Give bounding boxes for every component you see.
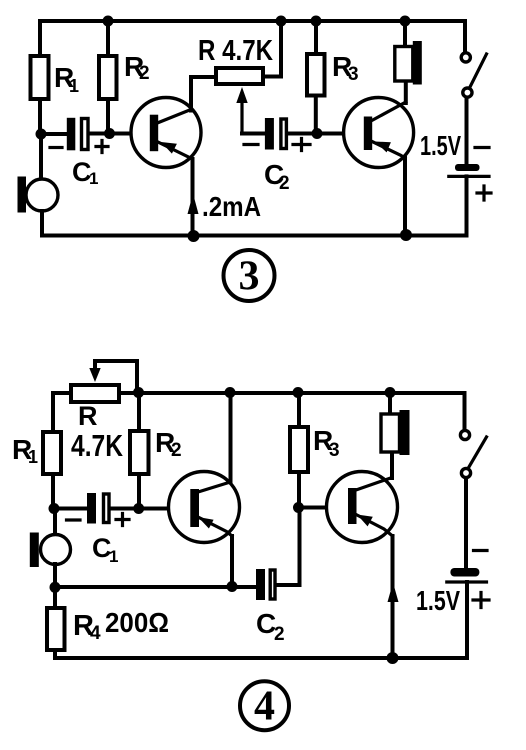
wire R2 bottom lead fig3	[106, 99, 110, 134]
node R2/C1/base junction fig3	[104, 128, 115, 139]
transistor Q1 fig4	[169, 472, 240, 543]
svg-text:1: 1	[109, 547, 118, 566]
current arrow on Q2 emitter fig4	[388, 583, 399, 603]
wire R3 top lead fig4	[297, 393, 301, 427]
wire R1 bottom lead fig3	[38, 99, 42, 134]
label C1 minus fig4	[67, 518, 81, 521]
svg-text:.2mA: .2mA	[202, 191, 261, 222]
Q1 emitter arrow fig3	[161, 142, 177, 154]
svg-text:4.7K: 4.7K	[71, 428, 123, 463]
Q1 emitter arrow fig4	[198, 517, 214, 529]
figure number 4	[240, 681, 289, 730]
wire Q1 collector diagonal fig4	[198, 482, 231, 492]
node R3 rail junction fig4	[293, 387, 304, 398]
wire C1 right lead to Q1 base fig3	[89, 132, 151, 136]
wire Q2 collector diagonal fig4	[356, 478, 392, 491]
node earphone top rail junction fig3	[400, 16, 411, 27]
wire Q2 emitter to bottom rail fig4	[391, 536, 395, 658]
wire R3 bottom lead fig3	[314, 96, 318, 134]
wire switch to battery fig3	[465, 98, 469, 164]
wire Q2 emitter diagonal fig3	[371, 141, 405, 158]
microphone M fig4	[41, 535, 71, 565]
wire Q1 emitter down to bus fig4	[230, 536, 234, 586]
svg-text:2: 2	[279, 173, 290, 194]
wire Q1 emitter diagonal fig4	[199, 518, 232, 537]
label C2 minus fig3	[244, 143, 258, 146]
label battery minus fig3	[475, 146, 489, 149]
node Q1 collector rail junction fig4	[225, 387, 236, 398]
current arrow .2mA fig3	[188, 194, 199, 215]
wire C2 right lead riser fig4	[277, 508, 300, 586]
svg-text:1.5V: 1.5V	[420, 130, 461, 161]
wire pot left lead fig4	[53, 393, 71, 432]
svg-text:R 4.7K: R 4.7K	[198, 35, 273, 67]
capacitor C2 fig3	[265, 118, 274, 150]
svg-text:4: 4	[90, 623, 101, 644]
potentiometer R 4.7K fig3	[216, 68, 263, 84]
potentiometer R 4.7K fig4	[71, 385, 119, 402]
resistor R1 fig4	[43, 432, 61, 474]
Q2 emitter arrow fig3	[375, 142, 391, 153]
earphone BF fig3	[395, 47, 413, 82]
wire R4 top lead fig4	[53, 587, 57, 608]
wire C1 right lead to Q1 base fig4	[110, 507, 191, 511]
label battery plus fig3	[477, 186, 491, 200]
wire top rail fig4	[119, 391, 465, 395]
wire battery to bottom rail fig3	[465, 176, 469, 235]
capacitor C2 fig4	[256, 569, 265, 600]
wire Q2 emitter diagonal fig4	[357, 515, 393, 536]
wire top rail to switch fig3	[463, 21, 467, 52]
capacitor C1 fig4	[87, 493, 96, 524]
node R3/C2/base junction fig4	[293, 502, 304, 513]
capacitor C1 fig3	[67, 118, 76, 151]
node R1/C1/mic junction fig4	[49, 503, 60, 514]
Q2 emitter arrow fig4	[357, 515, 373, 527]
svg-text:R: R	[78, 401, 98, 431]
label C1 plus fig3	[96, 141, 108, 153]
wire top supply rail fig3	[40, 19, 465, 23]
battery B 1.5V fig3	[455, 164, 480, 171]
wire C1 left lead fig4	[54, 507, 87, 511]
earphone BF fig4	[381, 414, 400, 452]
wire switch to battery fig4	[464, 478, 468, 567]
wire Q2 emitter to bottom rail fig3	[403, 158, 407, 236]
wire pot right lead to top rail fig3	[263, 21, 281, 77]
microphone M fig3	[26, 179, 58, 211]
svg-text:1: 1	[28, 447, 38, 467]
wire rail to switch fig4	[463, 393, 467, 429]
label battery plus fig4	[473, 593, 489, 608]
switch S fig4	[460, 430, 469, 439]
wire mic top lead fig3	[39, 134, 43, 179]
wire Q1 collector riser to pot fig3	[191, 77, 216, 111]
label battery minus fig4	[474, 549, 488, 552]
transistor Q1 fig3	[131, 98, 201, 168]
wire C1 left lead fig3	[41, 132, 67, 136]
wire R2 bottom lead fig4	[137, 474, 141, 509]
wire Q2 collector riser to earphone fig3	[404, 81, 408, 103]
wire Q1 collector diagonal fig3	[156, 110, 191, 124]
node pot/R2 rail junction fig4	[133, 387, 144, 398]
node R1/C1/mic junction fig3	[36, 129, 47, 140]
wire mic bottom lead to bottom rail fig3	[40, 211, 44, 236]
wire bottom rail fig3	[42, 234, 465, 238]
wire R1 top lead fig3	[38, 21, 42, 56]
wire R2 top lead fig4	[137, 393, 141, 432]
switch S fig3	[461, 53, 470, 62]
resistor R1 fig3	[31, 56, 49, 99]
node earphone rail junction fig4	[385, 387, 396, 398]
svg-text:3: 3	[329, 440, 340, 461]
svg-text:1: 1	[89, 169, 98, 188]
resistor R4 fig4	[47, 608, 65, 650]
transistor Q2 fig3	[344, 98, 414, 168]
svg-text:2: 2	[171, 440, 182, 461]
svg-text:3: 3	[239, 254, 260, 300]
pot wiper arrow fig4	[89, 368, 100, 382]
wire battery to bottom rail fig4	[465, 582, 469, 658]
wire Q1 collector riser to top rail fig4	[229, 393, 233, 482]
node pot riser top rail junction fig3	[276, 16, 287, 27]
wire R1 bottom lead fig4	[51, 474, 55, 509]
node R3 top rail junction fig3	[311, 16, 322, 27]
node mic/R4/C2wire junction fig4	[50, 582, 61, 593]
svg-text:200Ω: 200Ω	[105, 607, 169, 638]
pot wiper arrow fig3	[236, 87, 247, 103]
wire mic bottom lead fig4	[53, 564, 57, 587]
wire wiper loop to pot right fig4	[95, 361, 137, 392]
svg-text:1.5V: 1.5V	[416, 585, 460, 616]
label C1 plus fig4	[116, 514, 129, 526]
wire R3 bottom lead fig4	[297, 472, 301, 508]
node Q2 emitter bottom rail junction fig4	[387, 652, 399, 664]
wire R4 bottom lead fig4	[53, 650, 57, 658]
wire emitter bus to C2 fig4	[55, 585, 256, 589]
transistor Q2 fig4	[327, 472, 398, 543]
wire wiper to C2 fig3	[242, 132, 265, 136]
wire Q1 emitter diagonal fig3	[158, 142, 193, 159]
resistor R2 fig3	[99, 56, 117, 99]
node R3/C2/base junction fig3	[312, 128, 323, 139]
wire base lead to Q2 fig4	[299, 506, 349, 510]
svg-text:4: 4	[254, 684, 275, 730]
svg-text:2: 2	[139, 63, 150, 84]
wire C2 right lead to Q2 base fig3	[288, 132, 365, 136]
svg-text:1: 1	[69, 76, 79, 96]
wire earphone top lead fig4	[388, 393, 392, 414]
node Q1 emitter bottom rail junction fig3	[188, 230, 200, 242]
node R2/C1/base junction fig4	[133, 503, 144, 514]
resistor R3 fig3	[307, 54, 325, 96]
wire R3 top lead fig3	[314, 21, 318, 54]
battery B 1.5V fig4	[450, 568, 479, 577]
wire bottom rail fig4	[55, 656, 467, 660]
node R2 top rail junction fig3	[103, 16, 114, 27]
wire R2 top lead fig3	[106, 21, 110, 56]
wire Q2 collector riser to earphone fig4	[390, 453, 394, 478]
resistor R3 fig4	[290, 427, 308, 472]
wire Q2 collector diagonal fig3	[370, 102, 406, 122]
svg-text:3: 3	[348, 64, 359, 85]
svg-text:2: 2	[274, 624, 285, 645]
wire earphone top lead fig3	[403, 21, 407, 47]
node Q1 emitter bus junction fig4	[227, 581, 238, 592]
wire Q1 emitter to bottom rail fig3	[191, 159, 195, 236]
resistor R2 fig4	[130, 431, 149, 474]
figure number 3	[224, 250, 275, 301]
label C1 minus fig3	[50, 146, 62, 149]
label C2 plus fig3	[293, 139, 310, 151]
node Q2 emitter bottom rail junction fig3	[400, 229, 412, 241]
wire mic top lead fig4	[53, 509, 57, 536]
